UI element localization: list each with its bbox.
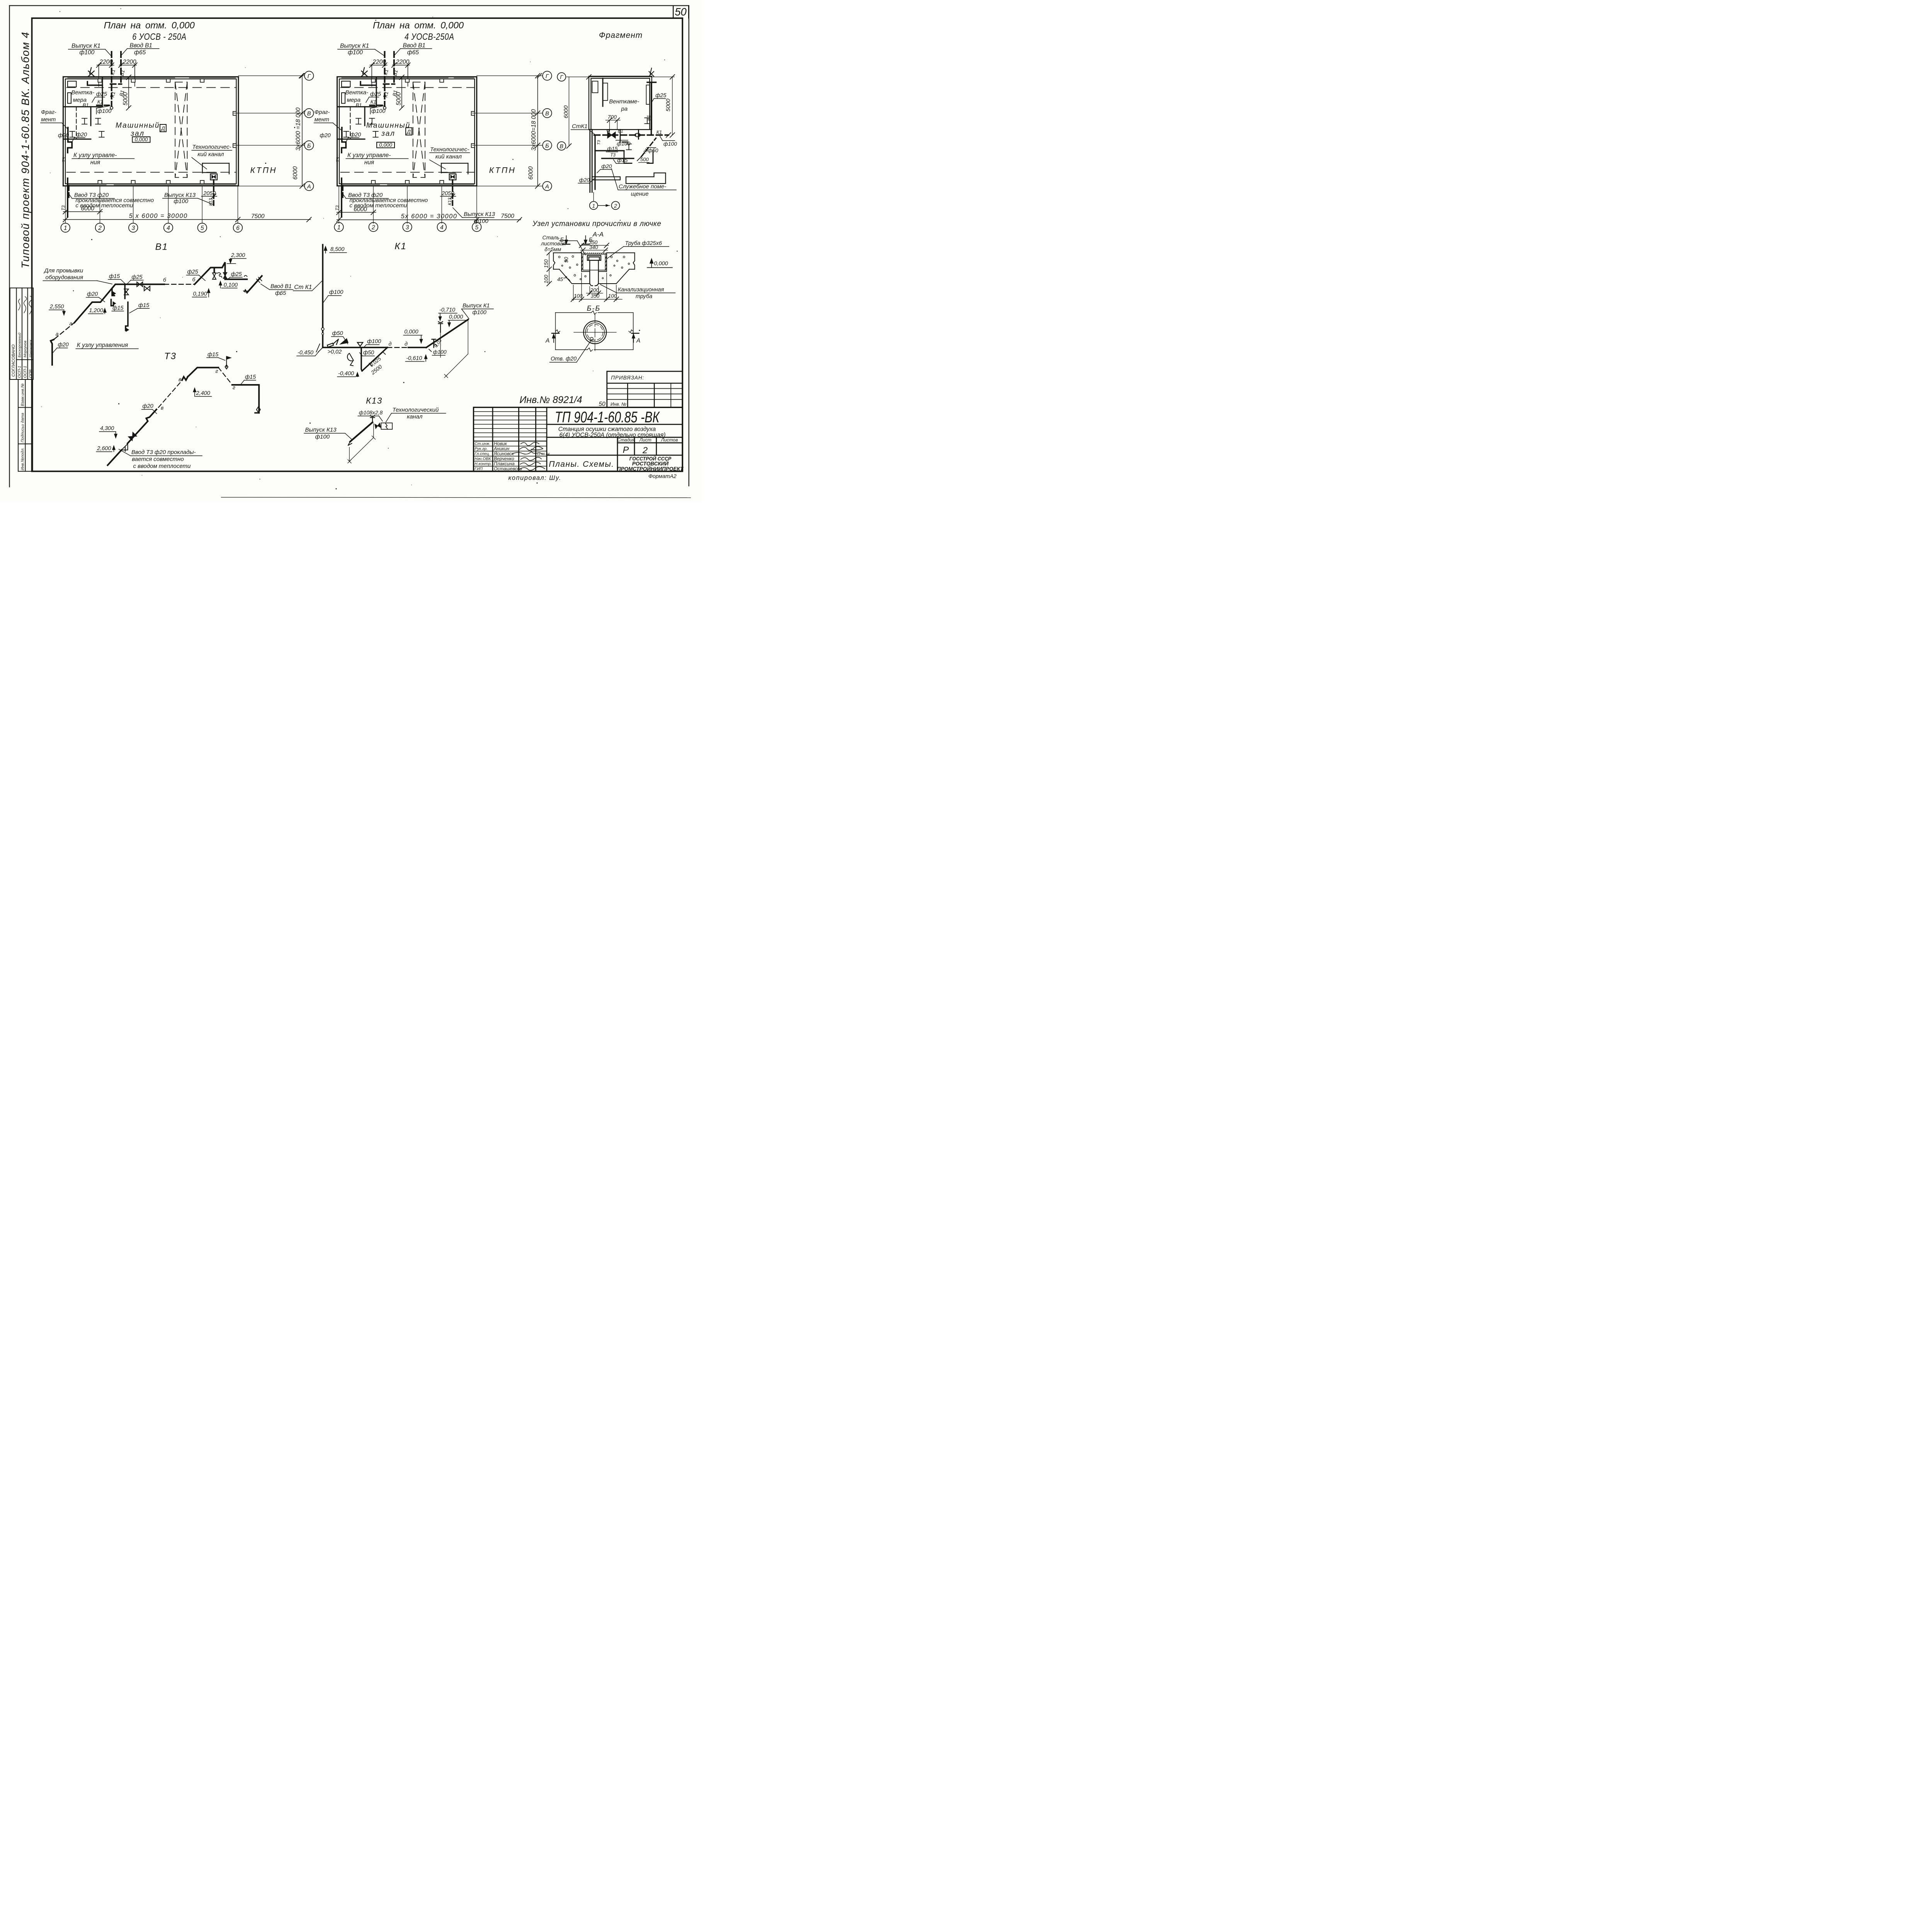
svg-text:Д: Д xyxy=(406,129,411,135)
svg-text:Машинный: Машинный xyxy=(116,122,160,130)
svg-text:Фраг-: Фраг- xyxy=(315,109,330,116)
svg-text:340: 340 xyxy=(589,245,598,250)
svg-text:500: 500 xyxy=(640,156,649,162)
fragment I-beam columns xyxy=(626,144,632,150)
svg-text:Ст К1: Ст К1 xyxy=(294,284,312,291)
plan2 vertical dim 18000 xyxy=(537,76,539,186)
svg-text:А: А xyxy=(307,183,311,190)
svg-text:А: А xyxy=(545,337,549,344)
svg-text:ф15: ф15 xyxy=(607,146,617,152)
dim 2200 texts xyxy=(99,59,136,65)
signature squiggles xyxy=(19,296,32,314)
svg-text:50: 50 xyxy=(675,6,687,18)
K1 horizontal dashed to circle xyxy=(97,102,111,108)
D trap below run xyxy=(346,353,354,362)
V1 bold pipe right xyxy=(649,83,654,135)
svg-text:ф20: ф20 xyxy=(601,163,612,169)
svg-text:Станция осушки сжатого возд: Станция осушки сжатого воздуха xyxy=(558,426,656,433)
svg-text:РОСТОВСКИЙ: РОСТОВСКИЙ xyxy=(632,461,668,467)
fragment label left xyxy=(41,109,56,123)
valve cross at wall plan2 xyxy=(362,68,367,77)
svg-text:Т3: Т3 xyxy=(62,157,67,162)
svg-text:ф15: ф15 xyxy=(245,374,256,380)
svg-text:45°: 45° xyxy=(557,277,565,282)
dim row 6000 xyxy=(63,211,102,213)
svg-text:Верченко: Верченко xyxy=(494,456,514,461)
svg-text:8,500: 8,500 xyxy=(330,247,344,253)
svg-text:Осташевски: Осташевски xyxy=(494,466,522,471)
svg-text:ф25: ф25 xyxy=(96,91,107,97)
sheet number box 50 xyxy=(673,6,689,18)
svg-text:4: 4 xyxy=(167,225,170,231)
svg-text:ф100: ф100 xyxy=(348,49,363,56)
T3 dashed v-v xyxy=(158,381,182,408)
svg-text:ф100: ф100 xyxy=(663,141,677,147)
svg-text:200: 200 xyxy=(590,287,599,293)
svg-text:Ввод В1: Ввод В1 xyxy=(403,43,426,49)
dim 5000 xyxy=(128,77,130,108)
svg-text:5х 6000 = 30000: 5х 6000 = 30000 xyxy=(401,213,457,220)
svg-text:вается совместно: вается совместно xyxy=(132,456,184,463)
svg-text:ния: ния xyxy=(90,159,100,166)
svg-text:2: 2 xyxy=(642,445,648,455)
names xyxy=(493,441,522,471)
plan2 axis dashed lines xyxy=(341,86,474,89)
pipe in pit xyxy=(587,255,601,286)
plan2 k uzlu xyxy=(347,152,391,166)
svg-text:ф100: ф100 xyxy=(474,218,488,224)
roles xyxy=(474,442,492,471)
svg-text:ф65: ф65 xyxy=(134,49,146,56)
svg-text:А-А: А-А xyxy=(592,231,604,238)
svg-text:Плаксина: Плаксина xyxy=(494,461,515,466)
flag symbol at T3 top xyxy=(225,357,231,369)
svg-text:ф50: ф50 xyxy=(648,147,658,153)
labels on V1 xyxy=(87,269,242,311)
svg-text:А: А xyxy=(636,337,640,344)
grid axis extension lines xyxy=(65,186,238,223)
svg-text:Выпуск К13: Выпуск К13 xyxy=(164,192,196,199)
svg-text:150: 150 xyxy=(543,259,549,268)
svg-text:0,100: 0,100 xyxy=(224,282,238,288)
dlya promyvki label xyxy=(44,267,83,281)
svg-text:ф25: ф25 xyxy=(370,91,381,97)
vertical dim 18000 xyxy=(301,76,303,186)
svg-text:Ст.инж.: Ст.инж. xyxy=(474,442,490,446)
svg-text:Т3: Т3 xyxy=(336,157,341,162)
stadiya list listov xyxy=(617,437,678,443)
svg-text:50: 50 xyxy=(563,257,569,263)
label k uzlu upravleniya xyxy=(73,152,117,166)
svg-text:К1: К1 xyxy=(395,241,407,252)
fragment lower walls xyxy=(590,129,653,192)
svg-text:ф15: ф15 xyxy=(617,157,628,163)
svg-text:Выпуск К13: Выпуск К13 xyxy=(305,427,337,433)
dim 5000 plan2 xyxy=(401,77,403,108)
svg-text:ф20: ф20 xyxy=(579,177,590,183)
svg-text:Новик: Новик xyxy=(494,441,507,446)
big project number xyxy=(555,409,660,426)
svg-text:Технологичес-: Технологичес- xyxy=(192,144,231,150)
svg-text:ф15: ф15 xyxy=(109,274,120,280)
svg-text:2: 2 xyxy=(371,224,375,231)
svg-text:ф25: ф25 xyxy=(187,269,199,275)
svg-text:Ввод Т3 ф20 проклады-: Ввод Т3 ф20 проклады- xyxy=(131,449,196,456)
svg-text:Ввод В1: Ввод В1 xyxy=(270,284,292,290)
svg-text:6 УОСВ - 250А: 6 УОСВ - 250А xyxy=(132,31,186,42)
fragment left dim 6000 xyxy=(568,77,570,146)
interior columns I-beams xyxy=(82,118,87,124)
svg-text:Канализационная: Канализационная xyxy=(618,287,664,293)
svg-text:б: б xyxy=(163,277,167,283)
svg-text:Инв.№ 8921/4: Инв.№ 8921/4 xyxy=(520,395,582,405)
left dims 150 100 xyxy=(548,253,550,284)
svg-text:ф100: ф100 xyxy=(617,140,630,146)
thin ref lines xyxy=(440,320,468,378)
plan2 window lines xyxy=(342,78,474,185)
svg-text:4,300: 4,300 xyxy=(100,425,114,432)
svg-text:5 х 6000 = 30000: 5 х 6000 = 30000 xyxy=(129,213,188,219)
svg-text:Ясиновск: Ясиновск xyxy=(493,451,514,456)
svg-text:2200: 2200 xyxy=(396,59,410,65)
svg-text:Сталь: Сталь xyxy=(543,235,560,241)
drop and rise xyxy=(361,347,362,371)
svg-text:В: В xyxy=(545,111,549,117)
svg-text:ф100: ф100 xyxy=(97,108,111,114)
plan2 letter circles xyxy=(543,71,552,190)
V1 branch drop with faucets xyxy=(111,284,128,330)
svg-text:ра: ра xyxy=(621,105,628,112)
svg-text:ф20: ф20 xyxy=(350,132,361,138)
svg-text:копировал: Шу.: копировал: Шу. xyxy=(509,474,561,481)
break squiggles sides xyxy=(556,330,633,333)
inner drawing frame xyxy=(32,18,683,471)
svg-text:ОСП-1: ОСП-1 xyxy=(17,366,22,378)
plan2 grid extension lines xyxy=(339,186,477,223)
0,000 mark xyxy=(650,259,653,268)
svg-text:Взам.инв.№: Взам.инв.№ xyxy=(20,383,25,406)
svg-text:Гл.спец.: Гл.спец. xyxy=(474,452,490,456)
svg-text:2200: 2200 xyxy=(99,59,113,65)
svg-text:ф100: ф100 xyxy=(371,108,385,114)
svg-text:Г: Г xyxy=(308,73,311,80)
svg-text:План на отм. 0,000: План на отм. 0,000 xyxy=(373,20,464,31)
hole otv f20 xyxy=(590,337,593,340)
svg-text:К1: К1 xyxy=(656,129,662,135)
svg-text:7500: 7500 xyxy=(501,213,514,219)
K1 dashed main line xyxy=(594,132,669,138)
dashed b-b segment xyxy=(164,282,195,286)
label vypusk K1 f100 xyxy=(71,43,152,56)
svg-text:Выпуск К1: Выпуск К1 xyxy=(463,303,490,309)
elevation marks V1 xyxy=(49,252,245,314)
svg-text:Труба ф325х6: Труба ф325х6 xyxy=(625,240,662,247)
svg-text:ф50: ф50 xyxy=(332,330,343,337)
centerlines xyxy=(574,332,616,333)
svg-text:Б: Б xyxy=(307,143,311,149)
svg-text:0,190: 0,190 xyxy=(193,291,207,297)
D box xyxy=(160,124,166,132)
svg-text:Г: Г xyxy=(560,75,563,81)
svg-text:ф100: ф100 xyxy=(433,349,447,355)
vvod T3 text xyxy=(131,449,196,469)
tech channel dashed xyxy=(175,82,187,178)
svg-text:А: А xyxy=(545,183,549,190)
steel liner hatched xyxy=(582,253,607,270)
svg-text:6000: 6000 xyxy=(527,166,534,180)
svg-text:К узлу управления: К узлу управления xyxy=(77,342,128,349)
svg-text:К1: К1 xyxy=(383,69,389,76)
B-B rect xyxy=(556,311,633,352)
svg-text:Нач.ОВК: Нач.ОВК xyxy=(474,457,491,461)
scan speckles xyxy=(29,9,678,490)
interior partitions ventkamera xyxy=(64,77,102,139)
svg-text:3: 3 xyxy=(406,224,409,231)
svg-text:ГИП: ГИП xyxy=(474,467,483,471)
concrete dots left xyxy=(558,256,629,280)
valves on V1 run xyxy=(124,273,227,295)
svg-text:В: В xyxy=(307,111,311,117)
plan2 vvod T3 labels xyxy=(348,192,428,209)
sluzhebnoe room walls xyxy=(592,173,665,184)
svg-text:2: 2 xyxy=(98,225,102,231)
A section arrows xyxy=(545,337,640,344)
svg-text:Выпуск К1: Выпуск К1 xyxy=(340,43,369,49)
plan2 dim 6000 xyxy=(337,211,376,214)
svg-text:7500: 7500 xyxy=(251,213,265,220)
svg-text:Р: Р xyxy=(623,445,629,455)
svg-text:1: 1 xyxy=(592,202,595,209)
svg-text:в: в xyxy=(161,405,163,411)
svg-text:2050: 2050 xyxy=(441,190,454,197)
svg-text:ф100: ф100 xyxy=(473,310,486,316)
svg-text:Ввод В1: Ввод В1 xyxy=(130,43,153,49)
svg-text:Рук.гр.: Рук.гр. xyxy=(474,447,488,451)
pipe V1 riser (bold dashed) xyxy=(118,52,124,82)
svg-text:оборудования: оборудования xyxy=(46,274,83,281)
svg-text:ПРОМСТРОЙНИИПРОЕКТ: ПРОМСТРОЙНИИПРОЕКТ xyxy=(617,466,684,472)
vypusk K13 label xyxy=(305,427,337,440)
0,000 box xyxy=(133,137,150,143)
plan2 K1 riser xyxy=(382,52,388,106)
plan2 grid circles xyxy=(334,223,481,232)
svg-text:Б: Б xyxy=(545,143,549,149)
svg-text:К узлу управле-: К узлу управле- xyxy=(73,152,117,158)
svg-text:ф25: ф25 xyxy=(655,92,667,99)
svg-text:ТП 904-1-60.85 -ВК: ТП 904-1-60.85 -ВК xyxy=(555,409,660,426)
fragment grid circles 1 2 xyxy=(593,192,595,201)
plan2 bottom chamber xyxy=(441,163,468,180)
svg-text:6000: 6000 xyxy=(81,206,95,212)
svg-text:-0,450: -0,450 xyxy=(298,350,313,356)
svg-text:Подписьи дата: Подписьи дата xyxy=(20,413,25,442)
svg-text:Н.контр.: Н.контр. xyxy=(474,462,492,466)
plan2 vypusk K13 xyxy=(464,211,495,224)
faucet at right end xyxy=(255,407,260,413)
plan2 dim 30000 xyxy=(337,219,521,221)
svg-text:Моргунов: Моргунов xyxy=(23,341,27,357)
signatures scribbles xyxy=(512,442,545,471)
K13 pipe xyxy=(211,180,217,208)
svg-text:Планы. Схемы.: Планы. Схемы. xyxy=(549,460,614,469)
plan2 letter axis lines xyxy=(473,76,543,186)
svg-text:К узлу управле-: К узлу управле- xyxy=(347,152,391,158)
svg-text:Вентка-: Вентка- xyxy=(345,89,369,96)
svg-text:>0,02: >0,02 xyxy=(328,349,342,355)
T3 pipeline xyxy=(108,377,259,466)
svg-text:ф20: ф20 xyxy=(58,133,69,139)
svg-text:1: 1 xyxy=(337,224,341,231)
wall pilasters top xyxy=(98,79,236,184)
svg-text:0,000: 0,000 xyxy=(449,314,463,320)
window lines top/bottom walls xyxy=(68,78,236,185)
svg-text:ф15: ф15 xyxy=(138,303,150,309)
svg-text:700: 700 xyxy=(608,114,617,120)
fragment letter circles xyxy=(557,73,566,150)
svg-text:3: 3 xyxy=(131,225,135,231)
svg-text:СтК1: СтК1 xyxy=(572,123,588,129)
plan2 mashinny zal xyxy=(366,122,410,138)
pipe V1 horizontal in building xyxy=(111,81,122,87)
svg-text:труба: труба xyxy=(636,293,652,299)
svg-text:Лист: Лист xyxy=(639,437,651,443)
svg-text:Аникин: Аникин xyxy=(493,446,510,451)
fragment top dim line xyxy=(566,76,674,78)
svg-text:В1: В1 xyxy=(155,241,168,252)
svg-text:ф20: ф20 xyxy=(320,133,331,139)
dim 2200 lines xyxy=(97,64,137,86)
svg-text:д: д xyxy=(389,341,392,347)
svg-text:Т3: Т3 xyxy=(611,153,616,158)
V1 pipeline main xyxy=(51,262,262,365)
svg-text:4 УОСВ-250А: 4 УОСВ-250А xyxy=(405,31,454,42)
svg-text:а: а xyxy=(70,320,73,327)
svg-text:2,300: 2,300 xyxy=(231,252,245,259)
svg-text:5: 5 xyxy=(201,225,204,231)
svg-text:ф100: ф100 xyxy=(315,434,330,440)
labels f20 xyxy=(58,132,87,139)
svg-text:ф100: ф100 xyxy=(329,289,343,296)
svg-text:6000: 6000 xyxy=(354,206,367,213)
svg-text:а: а xyxy=(56,331,59,337)
svg-text:кий канал: кий канал xyxy=(435,153,462,160)
svg-text:КТПН: КТПН xyxy=(489,166,516,175)
mashinny zal xyxy=(116,122,160,138)
svg-text:5000: 5000 xyxy=(665,99,672,112)
svg-text:Б: Б xyxy=(560,236,564,243)
K13 pipe xyxy=(350,422,372,442)
svg-text:Для промывки: Для промывки xyxy=(44,267,83,274)
svg-text:ф100: ф100 xyxy=(367,338,381,345)
svg-text:ф100: ф100 xyxy=(174,198,189,205)
left section thin rows xyxy=(474,412,547,466)
svg-text:щение: щение xyxy=(631,190,649,197)
svg-text:-0,610: -0,610 xyxy=(406,355,422,362)
svg-text:Бескорованый: Бескорованый xyxy=(17,332,22,357)
svg-text:СОГЛАСОВАНО: СОГЛАСОВАНО xyxy=(11,344,16,377)
svg-text:г: г xyxy=(216,368,218,374)
svg-text:Фрагмент: Фрагмент xyxy=(599,31,643,40)
svg-text:12.06.84: 12.06.84 xyxy=(537,452,549,456)
dashed a-a segment xyxy=(54,323,74,339)
ventkamera text xyxy=(609,99,639,112)
hook at 2540 xyxy=(243,276,247,292)
svg-text:План на отм. 0,000: План на отм. 0,000 xyxy=(104,20,195,31)
svg-text:б: б xyxy=(192,276,196,282)
hatch on vvod pipe xyxy=(257,279,260,282)
svg-text:Машинный: Машинный xyxy=(366,122,410,130)
svg-text:1,200: 1,200 xyxy=(89,308,103,314)
svg-text:2200: 2200 xyxy=(372,59,386,65)
soglasovano texts xyxy=(11,332,33,378)
svg-text:Выпуск К1: Выпуск К1 xyxy=(71,43,100,49)
svg-text:Вентка-: Вентка- xyxy=(71,89,95,96)
vypusk K1 label xyxy=(463,303,490,316)
svg-text:Д: Д xyxy=(160,125,165,131)
svg-text:Щетковск: Щетковск xyxy=(29,340,33,357)
svg-text:К1: К1 xyxy=(109,91,116,98)
letter axis lines to circles xyxy=(234,76,304,186)
svg-text:К1: К1 xyxy=(109,69,116,76)
svg-text:мера: мера xyxy=(73,97,87,103)
plan2 tech channel xyxy=(413,82,425,178)
svg-text:Г: Г xyxy=(546,73,549,80)
plan2 building outer wall xyxy=(337,77,477,186)
svg-text:Инв. №: Инв. № xyxy=(611,401,626,407)
bottom chamber xyxy=(202,163,229,180)
T3 pipes xyxy=(595,135,634,190)
svg-text:Стадия: Стадия xyxy=(617,437,635,443)
svg-text:50: 50 xyxy=(599,401,606,408)
svg-text:1: 1 xyxy=(64,225,67,231)
svg-text:Листов: Листов xyxy=(661,437,678,443)
plan2 left wall pipes xyxy=(342,128,346,217)
letter circles xyxy=(304,71,314,190)
K1 horizontal dashed plan2 xyxy=(370,102,383,108)
svg-text:ф20: ф20 xyxy=(76,132,87,138)
svg-text:3х6000=18 000: 3х6000=18 000 xyxy=(531,109,537,151)
building outer wall xyxy=(63,77,239,186)
svg-text:ФорматА2: ФорматА2 xyxy=(648,473,677,479)
svg-text:д: д xyxy=(405,341,408,347)
svg-text:2,600: 2,600 xyxy=(97,446,111,452)
valve and fittings on K1 xyxy=(607,130,640,138)
svg-text:Узел установки прочистки в: Узел установки прочистки в лючке xyxy=(532,220,661,228)
T3 dashed g-g xyxy=(218,367,232,384)
svg-text:К1: К1 xyxy=(383,91,389,98)
fragment right dim 5000 xyxy=(672,77,673,135)
svg-text:КТПН: КТПН xyxy=(250,166,277,175)
svg-text:в: в xyxy=(179,376,181,382)
B-B circles xyxy=(583,321,606,344)
tech channel label xyxy=(192,144,231,158)
label vypusk K13 xyxy=(164,192,196,205)
grid circles 1-6 xyxy=(61,223,243,233)
svg-text:0,000: 0,000 xyxy=(379,142,392,148)
svg-text:2200: 2200 xyxy=(122,59,136,65)
svg-text:ф25: ф25 xyxy=(231,271,242,277)
svg-text:Инв.№подл.: Инв.№подл. xyxy=(20,447,25,470)
svg-text:5: 5 xyxy=(475,224,478,231)
pipe K1 riser (bold dashed) xyxy=(109,52,115,106)
svg-text:ф20: ф20 xyxy=(87,291,98,298)
svg-text:Служебное поме-: Служебное поме- xyxy=(619,184,666,190)
kanalizacionnaya truba label xyxy=(618,287,664,300)
svg-text:ОСП-1: ОСП-1 xyxy=(23,366,27,378)
bottom scan edge line xyxy=(221,497,691,498)
svg-text:Т3: Т3 xyxy=(335,205,340,211)
svg-text:зал: зал xyxy=(381,129,395,138)
